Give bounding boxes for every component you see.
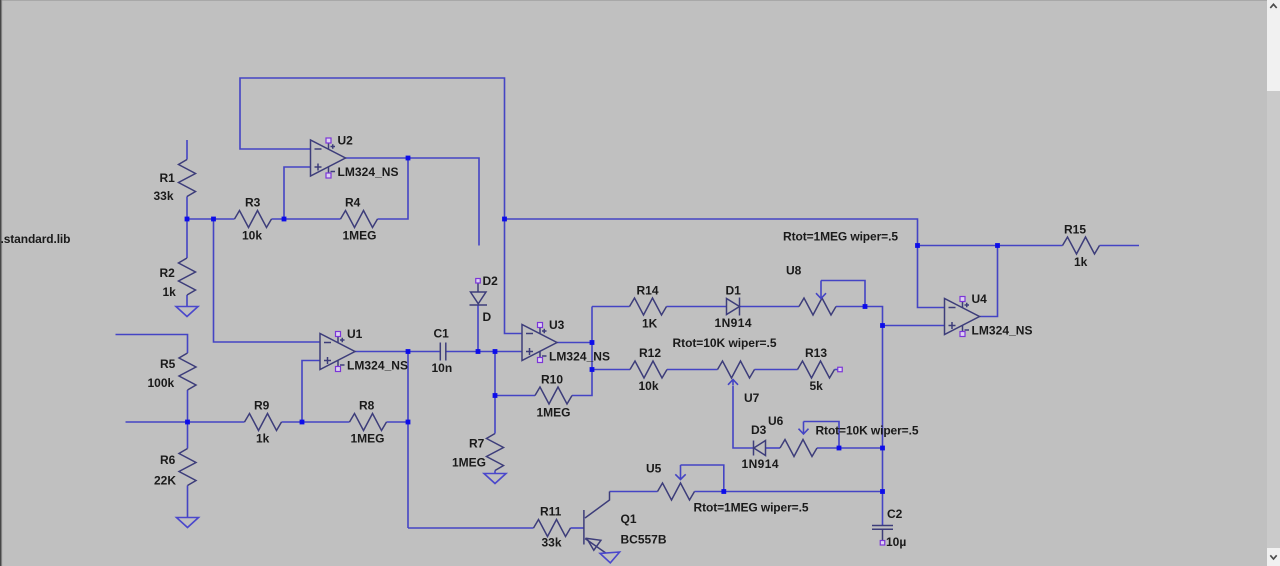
wire U4 output feedback	[980, 246, 998, 317]
svg-text:1K: 1K	[642, 317, 658, 331]
svg-text:D1: D1	[726, 284, 742, 298]
transistor Q1	[584, 492, 667, 554]
resistor R14	[630, 284, 667, 331]
wire U4 minus	[918, 246, 945, 308]
svg-text:U7: U7	[744, 391, 760, 405]
diode D2	[470, 274, 499, 324]
svg-text:22K: 22K	[154, 474, 176, 488]
svg-text:R15: R15	[1064, 223, 1086, 237]
wire U3 out vertical	[591, 307, 593, 370]
port R13 right	[838, 367, 843, 372]
resistor R1	[154, 160, 196, 204]
wire R10 right up	[572, 370, 592, 396]
svg-text:U3: U3	[549, 318, 565, 332]
wire node x408 down	[407, 352, 409, 529]
resistor R2	[160, 258, 196, 299]
resistor R12	[630, 346, 667, 393]
wire R11 to Q1 base	[571, 527, 584, 529]
wire U1 minus	[214, 219, 321, 342]
svg-text:1MEG: 1MEG	[537, 406, 571, 420]
wire D3 to U6	[766, 447, 781, 449]
junction R12 left	[590, 367, 595, 372]
svg-text:1N914: 1N914	[742, 457, 779, 471]
svg-text:LM324_NS: LM324_NS	[338, 165, 399, 179]
wire U5 right to C2 node	[695, 491, 883, 493]
wire U7 wiper down	[733, 386, 754, 449]
wire R9-R8	[282, 421, 350, 423]
wire U6 node to x882	[839, 447, 883, 449]
svg-text:R14: R14	[637, 284, 659, 298]
scrollbar down arrow	[1270, 555, 1276, 559]
wire R10 left	[495, 395, 535, 397]
svg-text:R5: R5	[160, 357, 176, 371]
capacitor C1	[432, 327, 453, 376]
wire bus y219 to corner	[505, 219, 918, 246]
svg-text:10k: 10k	[242, 229, 262, 243]
junction U4 plus	[880, 323, 885, 328]
junction R8 right	[406, 420, 411, 425]
svg-text:.standard.lib: .standard.lib	[1, 232, 71, 246]
svg-text:1N914: 1N914	[715, 316, 752, 330]
svg-text:R11: R11	[540, 505, 562, 519]
resistor R5	[148, 353, 197, 390]
svg-text:1MEG: 1MEG	[452, 456, 486, 470]
junction C2 top	[880, 489, 885, 494]
resistor R15	[1063, 223, 1100, 270]
svg-text:Rtot=1MEG wiper=.5: Rtot=1MEG wiper=.5	[783, 230, 898, 244]
svg-text:1MEG: 1MEG	[351, 432, 385, 446]
wire to R15	[918, 245, 1063, 247]
wire bus down to U3 minus	[505, 219, 523, 334]
svg-text:R13: R13	[805, 346, 827, 360]
wire R12 to U7	[667, 369, 718, 371]
resistor R6	[154, 449, 196, 488]
junction U6 right	[837, 446, 842, 451]
wire D2 bottom	[477, 305, 479, 352]
junction bus right	[915, 243, 920, 248]
svg-text:U5: U5	[646, 462, 662, 476]
svg-text:10n: 10n	[432, 361, 453, 375]
svg-text:R12: R12	[639, 346, 661, 360]
junction U8 right	[863, 304, 868, 309]
svg-text:1MEG: 1MEG	[343, 229, 377, 243]
wire R2 bottom	[186, 295, 188, 307]
svg-text:Rtot=10K wiper=.5: Rtot=10K wiper=.5	[816, 424, 919, 438]
ground below R7	[484, 474, 506, 484]
svg-text:R1: R1	[160, 171, 176, 185]
wire R15 right	[1100, 245, 1140, 247]
junction U2 out	[406, 156, 411, 161]
svg-text:U8: U8	[786, 264, 802, 278]
svg-text:Rtot=1MEG wiper=.5: Rtot=1MEG wiper=.5	[694, 501, 809, 515]
wire R7 bottom stub	[494, 471, 496, 474]
op-amp U2	[311, 134, 399, 180]
svg-text:D: D	[483, 310, 492, 324]
capacitor C2	[872, 507, 906, 549]
svg-text:LM324_NS: LM324_NS	[347, 359, 408, 373]
svg-text:33k: 33k	[154, 189, 174, 203]
junction x882 D3 row	[880, 446, 885, 451]
svg-text:R6: R6	[160, 453, 176, 467]
svg-text:1k: 1k	[163, 285, 177, 299]
ground below R2	[176, 307, 198, 317]
svg-text:D2: D2	[483, 274, 499, 288]
op-amp U1	[320, 327, 408, 373]
wire C1 right to U3 plus	[447, 351, 523, 353]
svg-text:R4: R4	[345, 196, 361, 210]
svg-text:BC557B: BC557B	[621, 533, 667, 547]
wire R12 left	[592, 369, 630, 371]
svg-text:U6: U6	[768, 414, 784, 428]
wire R8 right	[387, 421, 409, 423]
svg-text:U1: U1	[347, 327, 363, 341]
svg-text:R2: R2	[160, 266, 176, 280]
resistor R13	[798, 346, 835, 393]
junction U1 out	[406, 349, 411, 354]
junction bus left	[502, 217, 507, 222]
resistor R10	[535, 373, 572, 420]
wire U5 wiper loop	[681, 465, 724, 492]
wire C1 node down to R10	[494, 352, 496, 396]
wire U1 output to C1	[355, 351, 440, 353]
wire R1 top stub	[186, 140, 188, 160]
ground below R6	[177, 518, 199, 528]
wire R5 bottom	[187, 390, 189, 422]
svg-text:C1: C1	[434, 327, 450, 341]
scrollbar up arrow	[1270, 4, 1276, 8]
svg-text:Rtot=10K wiper=.5: Rtot=10K wiper=.5	[673, 336, 777, 350]
resistor R7	[452, 434, 504, 471]
svg-text:R9: R9	[254, 399, 270, 413]
junction U3 out	[590, 340, 595, 345]
junction R10 left	[493, 393, 498, 398]
scrollbar thumb	[1267, 91, 1280, 548]
svg-text:5k: 5k	[810, 379, 824, 393]
junction U5 right	[721, 489, 726, 494]
resistor R3	[235, 196, 272, 243]
svg-text:10k: 10k	[639, 379, 659, 393]
resistor R11	[534, 505, 571, 550]
ground below Q1 emitter	[600, 552, 620, 563]
wire R6 top	[187, 422, 189, 449]
wire Q1 collector to U5	[610, 491, 658, 493]
wire R14 left	[592, 306, 630, 308]
op-amp U4	[945, 292, 1033, 338]
svg-text:33k: 33k	[542, 536, 562, 550]
junction C1 right	[493, 349, 498, 354]
junction D2 node	[476, 349, 481, 354]
resistor R4	[341, 196, 378, 243]
wire R6 bottom	[187, 486, 189, 518]
junction node A	[185, 217, 190, 222]
diode D3	[742, 423, 779, 471]
potentiometer U7	[718, 361, 760, 405]
wire U1 plus	[302, 361, 320, 423]
svg-text:100k: 100k	[148, 376, 175, 390]
wire R5 top stub	[116, 335, 188, 354]
potentiometer U6	[768, 414, 817, 457]
wire R4 right	[378, 158, 409, 219]
wire node row y219	[187, 218, 235, 220]
svg-text:D3: D3	[751, 423, 767, 437]
junction node C	[282, 217, 287, 222]
wire R3-R4	[272, 218, 341, 220]
wire U6 wiper loop	[804, 422, 840, 449]
svg-text:R7: R7	[469, 437, 485, 451]
svg-text:R3: R3	[245, 196, 261, 210]
scrollbar track	[1267, 0, 1280, 566]
resistor R9	[245, 399, 282, 446]
wire U8 node to U4 plus	[865, 307, 945, 326]
wire U7 to R13	[755, 369, 798, 371]
wire R7 top lead	[494, 396, 496, 434]
svg-text:U4: U4	[972, 292, 988, 306]
potentiometer U8	[786, 264, 836, 316]
potentiometer U5	[646, 462, 695, 501]
svg-text:C2: C2	[887, 507, 903, 521]
svg-text:1k: 1k	[256, 432, 270, 446]
svg-text:U2: U2	[338, 134, 354, 148]
wire U2 output	[346, 158, 480, 246]
svg-text:Q1: Q1	[621, 512, 637, 526]
wire R2 top	[186, 219, 188, 258]
junction R15 node	[995, 243, 1000, 248]
wire feedback U2 minus to bus	[240, 78, 505, 219]
op-amp U3	[522, 318, 610, 364]
junction R9-R8	[300, 420, 305, 425]
wire U8 wiper loop	[821, 281, 865, 307]
svg-text:R10: R10	[541, 373, 563, 387]
resistor R8	[350, 399, 387, 446]
junction node B	[211, 217, 216, 222]
svg-text:LM324_NS: LM324_NS	[972, 324, 1033, 338]
wire D1 to U8	[740, 306, 799, 308]
wire U2 plus	[284, 167, 311, 219]
wire main vertical x882	[882, 326, 884, 526]
svg-text:1k: 1k	[1074, 255, 1088, 269]
wire R1 bottom	[186, 197, 188, 220]
svg-text:LM324_NS: LM324_NS	[549, 350, 610, 364]
wire R13 right port stub	[835, 369, 838, 371]
wire U3 output	[557, 342, 593, 344]
wire R14 to D1	[667, 306, 727, 308]
svg-text:R8: R8	[359, 399, 375, 413]
wire R11 left	[408, 527, 534, 529]
junction R5-R6	[185, 420, 190, 425]
diode D1	[715, 284, 752, 331]
wire U6 right	[817, 447, 839, 449]
svg-text:10µ: 10µ	[886, 535, 906, 549]
wire input stub to R9	[126, 421, 245, 423]
wire U8 right	[836, 306, 865, 308]
